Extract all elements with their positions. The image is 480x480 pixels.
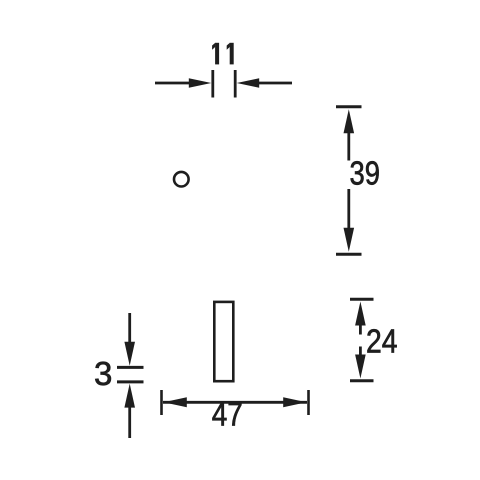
24 dim down arrowhead: [355, 355, 366, 379]
47 dim line: [163, 401, 307, 404]
3 dim lower tick: [117, 380, 144, 383]
right arrowhead of 11 dim: [237, 78, 260, 87]
39 dim lower shaft: [347, 189, 350, 230]
39 dim upper shaft: [347, 131, 350, 161]
39 dim up arrowhead: [344, 109, 355, 133]
left arrow shaft of 11 dim: [155, 82, 193, 85]
extension line left of 11 dim: [211, 70, 214, 98]
svg-text:39: 39: [350, 155, 381, 192]
39 dim down arrowhead: [344, 228, 355, 252]
24 dim top tick: [350, 298, 374, 301]
3 dim lower shaft: [128, 405, 131, 438]
24 dim up arrowhead: [355, 302, 366, 326]
svg-text:24: 24: [366, 323, 398, 360]
24 dim upper shaft stub: [359, 323, 362, 335]
39 dim top tick: [336, 105, 362, 108]
47 dim left tick: [160, 390, 163, 415]
right arrow shaft of 11 dim: [257, 82, 292, 85]
47 dim right arrowhead: [283, 397, 306, 407]
24 dim bottom tick: [350, 379, 374, 382]
47 dim right tick: [307, 390, 310, 415]
hole circle: [174, 172, 189, 187]
svg-text:3: 3: [94, 355, 112, 392]
left arrowhead of 11 dim: [189, 78, 212, 87]
3 dim upper tick: [117, 366, 144, 369]
dimension label 11 : digit 1 (right): [227, 43, 234, 65]
svg-text:47: 47: [212, 396, 243, 433]
slot rectangle: [214, 302, 233, 381]
39 dim bottom tick: [336, 253, 362, 256]
extension line right of 11 dim: [234, 70, 237, 98]
3 dim upper shaft: [128, 313, 131, 344]
24 dim lower shaft stub: [359, 347, 362, 357]
dimension label 11 : digit 1 (left): [212, 43, 219, 65]
47 dim left arrowhead: [164, 397, 187, 407]
3 dim up arrowhead: [124, 384, 135, 408]
3 dim down arrowhead: [124, 342, 135, 366]
